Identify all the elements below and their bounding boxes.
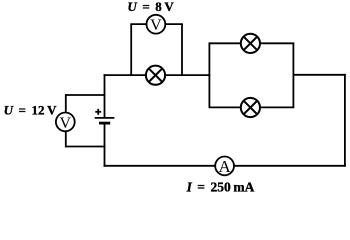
wire: 8V branch top horizontal (130, 23, 183, 25)
battery G1 long plate (+) (95, 117, 115, 119)
wire: parallel block bottom branch (209, 106, 295, 108)
wire: parallel block left vertical (208, 43, 210, 107)
wire: 12V branch vertical (65, 94, 67, 147)
wire: 12V branch bottom horizontal (66, 146, 106, 148)
wire: 8V branch left vertical (130, 24, 132, 75)
svg-text:I = 250 mA: I = 250 mA (186, 180, 255, 195)
wire: 12V branch top horizontal (66, 94, 106, 96)
wire: left vertical upper (battery top lead) (104, 74, 106, 118)
svg-text:U = 12 V: U = 12 V (4, 103, 58, 118)
wire: left vertical lower (battery bottom lead) (104, 123, 106, 167)
svg-text:V: V (150, 17, 162, 34)
wire: parallel block top branch (209, 42, 295, 44)
voltmeter V2 (12V) (56, 113, 75, 132)
svg-text:V: V (60, 115, 72, 132)
svg-text:A: A (218, 157, 231, 176)
wire: main horizontal middle (104, 74, 211, 76)
battery polarity + sign (95, 109, 101, 115)
lamp E2 (241, 34, 260, 53)
voltmeter V1 (8V) (147, 15, 166, 34)
lamp E3 (241, 98, 260, 117)
battery G1 short plate (-) (99, 122, 110, 125)
wire: output horizontal to right (293, 74, 345, 76)
ammeter A1 (215, 157, 234, 177)
wire: parallel block right vertical (292, 43, 294, 107)
wire: far right vertical (344, 74, 346, 167)
wire: 8V branch right vertical (181, 24, 183, 75)
lamp E1 (146, 66, 165, 85)
wire: bottom horizontal (104, 165, 346, 167)
svg-text:U = 8 V: U = 8 V (127, 0, 174, 14)
